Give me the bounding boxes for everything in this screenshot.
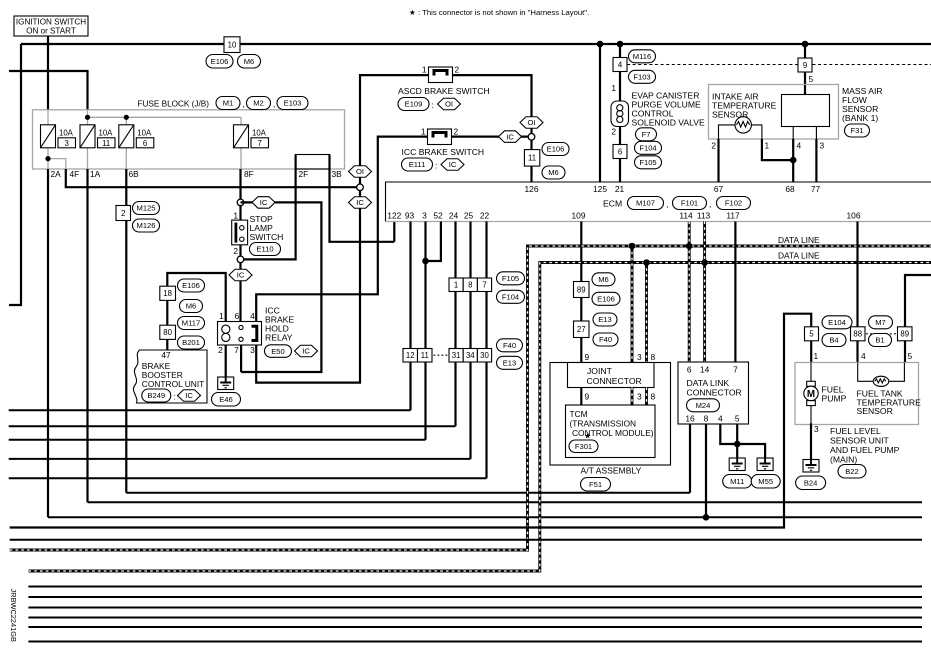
svg-text:OI: OI xyxy=(445,100,453,109)
connector 89 fuel (M7/B1) xyxy=(898,327,913,341)
svg-text:3: 3 xyxy=(422,211,427,221)
svg-text:F301: F301 xyxy=(575,442,592,451)
bus wire y617.5 xyxy=(28,617,922,619)
wire pin 3+52 to bus xyxy=(426,222,441,440)
svg-text:68: 68 xyxy=(785,184,795,194)
svg-text:67: 67 xyxy=(714,184,724,194)
fuel tank temperature sensor symbol xyxy=(873,376,889,386)
tag M116 xyxy=(629,50,656,63)
tag E106 conn11 xyxy=(542,143,569,156)
connector row 31/34/30 xyxy=(449,349,463,363)
wire conn5 to fuel pump pin 1 xyxy=(810,341,812,363)
svg-text:M6: M6 xyxy=(244,57,255,66)
wire ASCD pin2 right + down to ECM pin 126 xyxy=(453,75,532,182)
svg-text:21: 21 xyxy=(615,184,625,194)
wire: left branch x21 down xyxy=(9,44,21,305)
svg-text:AND FUEL PUMP: AND FUEL PUMP xyxy=(830,445,900,455)
svg-text:M107: M107 xyxy=(636,199,655,208)
svg-text:7: 7 xyxy=(733,365,738,375)
tag M117 conn80 xyxy=(178,317,205,330)
svg-text:117: 117 xyxy=(726,211,740,221)
wire 2A down + bottom bus xyxy=(47,169,49,517)
svg-text:9: 9 xyxy=(803,61,807,70)
svg-text:OI: OI xyxy=(356,167,364,176)
svg-text:F40: F40 xyxy=(599,335,612,344)
tag E13 row xyxy=(497,356,523,369)
svg-text:JRBWC2241GB: JRBWC2241GB xyxy=(9,589,18,642)
IC hexagon below stop lamp xyxy=(229,269,252,281)
wire ICC pin2 right to junction xyxy=(452,136,529,138)
svg-text:1: 1 xyxy=(765,141,770,151)
svg-text:E109: E109 xyxy=(405,100,423,109)
tag F7 xyxy=(636,128,657,141)
connector row 1/8/7 (F105/F104) xyxy=(449,278,463,292)
svg-text:F103: F103 xyxy=(633,73,650,82)
tag E13 conn27 xyxy=(593,313,617,326)
svg-text:B22: B22 xyxy=(845,467,859,476)
svg-text::: : xyxy=(435,160,437,170)
svg-text:125: 125 xyxy=(593,184,607,194)
tag E106 conn18 xyxy=(178,279,205,292)
svg-text:DATA LINK: DATA LINK xyxy=(687,378,730,388)
svg-text:7: 7 xyxy=(482,281,486,290)
svg-text:10A: 10A xyxy=(59,129,74,138)
tag F40 conn27 xyxy=(593,333,618,346)
svg-text:IC: IC xyxy=(302,347,310,356)
svg-text:,: , xyxy=(243,99,245,109)
svg-text:ASCD BRAKE SWITCH: ASCD BRAKE SWITCH xyxy=(398,86,490,96)
svg-text:1: 1 xyxy=(454,281,458,290)
tag E106 conn89 xyxy=(592,292,620,305)
relay contacts xyxy=(239,325,243,329)
tag F104 conn6 xyxy=(635,141,662,154)
svg-text:SENSOR: SENSOR xyxy=(857,406,893,416)
wire relay pin1 to connector 18 chain xyxy=(167,273,225,350)
svg-text:2: 2 xyxy=(218,345,223,355)
fuel level sensor unit box xyxy=(795,363,919,425)
tag M125 xyxy=(133,202,160,215)
fuel pump motor symbol xyxy=(807,381,816,386)
svg-text:6: 6 xyxy=(687,365,692,375)
svg-text:E13: E13 xyxy=(503,359,517,368)
svg-text:122: 122 xyxy=(387,211,401,221)
tag F103 xyxy=(629,70,656,83)
svg-text:F102: F102 xyxy=(725,199,742,208)
ignition switch box xyxy=(14,16,88,36)
bus wire y627 xyxy=(28,626,922,628)
fuse 10A #3 xyxy=(41,125,56,148)
junction dots on power bus xyxy=(597,41,604,48)
svg-text:PUMP: PUMP xyxy=(822,394,847,404)
wire DLC pin 16 down xyxy=(689,424,691,493)
wire ECM pin 106 to connector 88 xyxy=(856,222,858,327)
wire ECM pin 125 xyxy=(599,44,601,182)
tag M7 xyxy=(869,316,893,329)
wire: feed y71 to fuse block xyxy=(9,71,88,110)
wire relay pin2 to ground E46 xyxy=(225,345,227,377)
wire 1A down + bottom bus xyxy=(86,169,88,502)
wire pin 24 to bus xyxy=(454,222,456,427)
bus wire y607.5 xyxy=(28,607,922,609)
wire conn4/EVAP chain to ECM pin 21 xyxy=(619,44,621,182)
svg-text:M7: M7 xyxy=(875,318,886,327)
OI hexagon on ASCD feed xyxy=(349,166,372,178)
MAF output wires to ECM xyxy=(719,139,817,182)
svg-text:SENSOR: SENSOR xyxy=(712,110,748,120)
svg-text:6: 6 xyxy=(618,147,622,156)
svg-text:25: 25 xyxy=(464,211,474,221)
svg-text:9: 9 xyxy=(585,392,590,402)
svg-text:4: 4 xyxy=(618,60,623,69)
svg-text:5: 5 xyxy=(908,351,913,361)
svg-text:E106: E106 xyxy=(182,281,200,290)
svg-text:24: 24 xyxy=(449,211,459,221)
data line 2 (dashed) xyxy=(28,263,931,572)
svg-text:F104: F104 xyxy=(639,144,656,153)
svg-text:IGNITION SWITCH: IGNITION SWITCH xyxy=(16,18,86,27)
svg-text:M11: M11 xyxy=(730,477,744,486)
ground M55 symbol xyxy=(757,458,773,471)
svg-text:B1: B1 xyxy=(875,336,884,345)
svg-text:ECM: ECM xyxy=(603,199,622,209)
svg-text:OI: OI xyxy=(527,118,535,127)
wire ICC pin1 left + down to relay pin4 xyxy=(256,137,427,322)
tag B4 xyxy=(822,334,846,347)
bus wire y641.5 xyxy=(28,641,922,643)
connector 18 (E106/M6) xyxy=(160,286,176,300)
bus wire y539.8 xyxy=(10,539,922,541)
svg-text:(MAIN): (MAIN) xyxy=(830,454,857,464)
svg-text:2: 2 xyxy=(233,246,238,256)
tag M6 for connector 10 xyxy=(238,55,261,69)
tag B24 xyxy=(796,476,826,490)
connector 2 (M125/M126) xyxy=(116,206,131,221)
svg-text:F104: F104 xyxy=(502,293,519,302)
tag F31 xyxy=(845,124,870,137)
wire: ignition feed down to fuse 3 xyxy=(47,36,49,110)
svg-text:11: 11 xyxy=(528,154,536,163)
wire stop lamp chain vertical xyxy=(239,245,241,322)
svg-text:10: 10 xyxy=(228,40,237,49)
svg-text::: : xyxy=(174,391,176,401)
svg-text:2: 2 xyxy=(454,127,459,137)
svg-text:SWITCH: SWITCH xyxy=(250,232,284,242)
connector 27 (E13/F40) xyxy=(574,321,590,338)
svg-text:10A: 10A xyxy=(252,129,267,138)
connector 89 (M6/E106) xyxy=(574,282,590,298)
junction circle 4F/ASCD/IC xyxy=(357,184,364,191)
wire fuel pump feed from bus xyxy=(10,314,812,528)
svg-text:8: 8 xyxy=(468,281,472,290)
EVAP canister purge volume control solenoid valve xyxy=(611,101,629,127)
svg-text:3: 3 xyxy=(65,139,69,148)
svg-text:89: 89 xyxy=(577,285,586,294)
svg-text:93: 93 xyxy=(405,211,415,221)
svg-text:M24: M24 xyxy=(696,401,711,410)
connector 88 (M7/B1) xyxy=(851,327,866,341)
bus wire y586.5 xyxy=(28,586,922,588)
wire DLC pin 4 to ground node xyxy=(720,424,737,444)
dotted link 11 to 31 xyxy=(434,354,448,356)
IC hexagon below junction xyxy=(349,197,372,209)
svg-text:114: 114 xyxy=(679,211,693,221)
svg-text:E106: E106 xyxy=(597,295,615,304)
svg-text:DATA LINE: DATA LINE xyxy=(778,251,820,261)
tag M126 xyxy=(133,219,160,232)
svg-text:80: 80 xyxy=(163,328,172,337)
svg-text:IC: IC xyxy=(356,198,364,207)
tag E110 xyxy=(250,243,281,256)
svg-text:2: 2 xyxy=(455,65,460,75)
MAF internal element box xyxy=(782,95,830,127)
fuse block notch connector 2F/3B xyxy=(296,155,330,170)
svg-text:77: 77 xyxy=(811,184,821,194)
svg-text:M125: M125 xyxy=(137,204,156,213)
wire ECM pin 114 dashed to DLC pin 6 xyxy=(688,222,691,363)
svg-text:★ : This connector is not show: ★ : This connector is not shown in "Harn… xyxy=(409,8,589,17)
svg-text:IC: IC xyxy=(449,160,457,169)
connector 80 (M117/B201) xyxy=(160,325,176,339)
svg-text:E50: E50 xyxy=(271,347,285,356)
mass air flow sensor outer box xyxy=(709,85,839,140)
harness boundary dashed line xyxy=(627,64,931,66)
svg-text:M: M xyxy=(807,389,815,400)
svg-text:27: 27 xyxy=(577,325,586,334)
svg-text:B4: B4 xyxy=(829,336,838,345)
MAF internal wiring xyxy=(719,125,817,139)
wires joint connector to TCM xyxy=(580,388,582,406)
svg-text:(TRANSMISSION: (TRANSMISSION xyxy=(570,419,637,429)
svg-text:B201: B201 xyxy=(182,338,200,347)
svg-text:DATA LINE: DATA LINE xyxy=(778,235,820,245)
svg-text:126: 126 xyxy=(525,184,539,194)
tag M6 conn11 xyxy=(542,166,565,179)
data line junction dots xyxy=(629,243,636,250)
svg-text:4F: 4F xyxy=(70,169,80,179)
svg-text:2F: 2F xyxy=(299,169,309,179)
fuse 10A #6 xyxy=(119,125,134,148)
svg-text:34: 34 xyxy=(466,351,475,360)
connector 10 (E106/M6) xyxy=(224,37,240,53)
svg-text:2: 2 xyxy=(611,127,616,137)
wire DLC pin 8 down to bus xyxy=(705,424,707,517)
tag E104 xyxy=(822,316,852,329)
tag E106 for connector 10 xyxy=(206,55,233,69)
dotted link 88 to 89 xyxy=(866,333,897,335)
svg-text:5: 5 xyxy=(809,74,814,84)
svg-text:2: 2 xyxy=(121,209,125,218)
svg-text:,: , xyxy=(273,99,275,109)
tag E109 with OI xyxy=(398,98,429,111)
svg-text:M126: M126 xyxy=(137,221,156,230)
svg-text:8: 8 xyxy=(651,392,656,402)
svg-text:IC: IC xyxy=(506,132,514,141)
svg-text:M116: M116 xyxy=(633,52,651,61)
svg-text:,: , xyxy=(709,199,711,209)
svg-text:TCM: TCM xyxy=(570,409,588,419)
svg-text:1: 1 xyxy=(422,65,427,75)
svg-text:F7: F7 xyxy=(642,130,651,139)
svg-text:ON or START: ON or START xyxy=(26,27,76,36)
svg-text:6B: 6B xyxy=(129,169,140,179)
svg-text:M6: M6 xyxy=(598,275,609,284)
svg-text:FUEL LEVEL: FUEL LEVEL xyxy=(830,426,881,436)
wire branch to ground M55 xyxy=(737,444,765,458)
fuse 10A #11 xyxy=(80,125,95,148)
connector 5 (E104/B4) xyxy=(805,327,819,341)
connector row 12/11 xyxy=(403,349,418,363)
svg-text:7: 7 xyxy=(234,345,239,355)
bus wire y597 xyxy=(28,596,922,598)
svg-text:E110: E110 xyxy=(256,245,273,254)
ECM box xyxy=(386,182,931,222)
svg-text::: : xyxy=(432,100,434,110)
svg-text:30: 30 xyxy=(480,351,489,360)
svg-text:M1: M1 xyxy=(223,99,234,108)
svg-text:IC: IC xyxy=(260,198,268,207)
junction circle stop lamp pin1 xyxy=(237,199,244,206)
relay box xyxy=(218,322,262,346)
svg-text:M6: M6 xyxy=(548,168,559,177)
connector 9 xyxy=(798,58,812,72)
svg-text:ICC BRAKE SWITCH: ICC BRAKE SWITCH xyxy=(402,147,485,157)
svg-text:3: 3 xyxy=(637,352,642,362)
tag F51 xyxy=(581,478,611,492)
svg-text:M55: M55 xyxy=(758,477,773,486)
data line 1 (dashed) xyxy=(10,246,931,550)
svg-text:E103: E103 xyxy=(284,99,302,108)
wire conn89 to fuel tank sensor pin 5 xyxy=(904,341,906,363)
svg-text:8: 8 xyxy=(704,414,709,424)
wire DLC pin 5 to ground M11 xyxy=(736,424,738,458)
stop lamp switch box xyxy=(232,220,248,245)
ground E46 symbol xyxy=(218,377,234,390)
tag B1 xyxy=(869,334,892,347)
wire right edge feed to connector 89 xyxy=(905,275,931,327)
svg-text:31: 31 xyxy=(452,351,461,360)
svg-text:2A: 2A xyxy=(51,169,62,179)
svg-text:RELAY: RELAY xyxy=(265,333,293,343)
TCM box xyxy=(566,405,656,458)
svg-text:E13: E13 xyxy=(598,315,612,324)
svg-text:A/T ASSEMBLY: A/T ASSEMBLY xyxy=(581,466,642,476)
junction circle stop lamp pin2 xyxy=(237,256,244,263)
wire ECM pin 117 to DLC pin 7 xyxy=(734,222,736,363)
tag F105 conn6 xyxy=(635,156,662,169)
svg-text:F40: F40 xyxy=(503,341,516,350)
svg-text:6: 6 xyxy=(235,311,240,321)
svg-text:88: 88 xyxy=(853,330,862,339)
wire conn9 to MAF pin5 xyxy=(804,44,806,95)
svg-text:F31: F31 xyxy=(850,126,863,135)
junction circle ASCD/ICC to ECM 126 xyxy=(528,134,535,141)
ASCD brake switch box xyxy=(429,67,453,83)
svg-text:3B: 3B xyxy=(332,169,343,179)
wire 3B to ECM pin 122 xyxy=(330,155,395,242)
tag F301 xyxy=(569,440,598,453)
svg-text:M6: M6 xyxy=(186,302,197,311)
fuse 10A #7 xyxy=(234,125,249,148)
svg-text:F101: F101 xyxy=(681,199,698,208)
tag M6 conn89 xyxy=(592,273,615,286)
wire ASCD pin1 left + down chain + relay pin3 xyxy=(256,75,428,383)
svg-text:SOLENOID VALVE: SOLENOID VALVE xyxy=(632,118,705,128)
svg-text:B249: B249 xyxy=(147,391,165,400)
tag E50 with IC xyxy=(265,345,292,358)
tag M11 xyxy=(723,475,752,489)
svg-text:3: 3 xyxy=(637,392,642,402)
svg-text:89: 89 xyxy=(900,330,909,339)
ground M11 symbol xyxy=(729,458,745,471)
svg-text:2: 2 xyxy=(711,141,716,151)
wire data line to joint connector pin 3 xyxy=(631,246,634,363)
tag E111 with IC xyxy=(402,158,433,171)
tag B201 conn80 xyxy=(178,336,205,349)
svg-text:E106: E106 xyxy=(547,145,565,154)
svg-text:9: 9 xyxy=(585,352,590,362)
IC hexagon on ICC pin2 wire xyxy=(499,131,522,143)
wire pin 109 to joint connector xyxy=(580,222,582,363)
connector 11 (E106/M6) xyxy=(524,150,539,167)
connector 6 (F104/F105) xyxy=(613,145,627,159)
svg-text:1: 1 xyxy=(219,311,224,321)
tag B22 xyxy=(838,465,866,479)
svg-text:3: 3 xyxy=(250,345,255,355)
connector 4 (M116/F103) xyxy=(613,58,627,72)
svg-text:IC: IC xyxy=(185,391,193,400)
IC hexagon right of stop lamp node xyxy=(241,202,322,372)
svg-text:1: 1 xyxy=(814,351,819,361)
svg-text:1A: 1A xyxy=(90,169,101,179)
wire 2F down to stop lamp pin 2 node xyxy=(244,155,296,260)
svg-text:F51: F51 xyxy=(589,480,602,489)
svg-text:1: 1 xyxy=(611,83,616,93)
svg-text:4: 4 xyxy=(250,311,255,321)
wire pin 93 to bus xyxy=(409,222,411,411)
svg-text:(BANK 1): (BANK 1) xyxy=(842,113,878,123)
fuse block internal gray wiring xyxy=(48,110,241,169)
wire 6B down + bus to DLC pin 16 xyxy=(125,169,127,493)
svg-text:5: 5 xyxy=(735,414,740,424)
wire conn88 to fuel tank sensor pin 4 xyxy=(856,341,858,363)
tag M24 xyxy=(687,399,720,412)
svg-text:14: 14 xyxy=(700,365,710,375)
fuel pump internal wiring xyxy=(811,363,904,424)
svg-text:IC: IC xyxy=(237,271,245,280)
wire: battery power bus y44 xyxy=(21,43,931,45)
svg-text:1: 1 xyxy=(233,211,238,221)
wire data line to joint connector pin 8 xyxy=(645,263,648,363)
wire 4F down and right to OI junction xyxy=(66,169,358,187)
svg-text:CONTROL UNIT: CONTROL UNIT xyxy=(142,379,205,389)
tag F105 row xyxy=(497,272,525,285)
tag M55 xyxy=(751,475,780,489)
wire pin 25 to bus xyxy=(469,222,471,459)
tag F40 row xyxy=(497,339,523,352)
svg-text:FUSE BLOCK (J/B): FUSE BLOCK (J/B) xyxy=(138,100,210,109)
svg-text:1: 1 xyxy=(421,127,426,137)
svg-text:,: , xyxy=(666,199,668,209)
svg-text:E106: E106 xyxy=(211,57,229,66)
tag B249 with IC xyxy=(142,389,171,402)
svg-text:F105: F105 xyxy=(502,274,519,283)
svg-text:12: 12 xyxy=(406,351,415,360)
svg-text:11: 11 xyxy=(421,351,429,360)
svg-text:★: ★ xyxy=(584,432,591,441)
svg-text:E46: E46 xyxy=(219,395,233,404)
data link connector box xyxy=(678,362,749,424)
fuse block outline xyxy=(33,110,345,169)
